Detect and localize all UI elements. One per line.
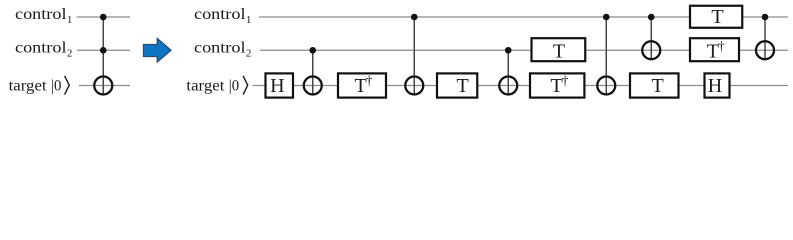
gate T-dagger box 2 on target wire [530, 73, 584, 98]
svg-text:2: 2 [246, 47, 252, 59]
label control1 (right circuit) [194, 6, 251, 26]
CNOT 5 target circle on control2 [642, 41, 660, 59]
wire control2 (left) [77, 49, 130, 51]
blue block arrow [144, 39, 172, 63]
wire control1 (left) [77, 16, 131, 18]
wire control2 (right) [260, 49, 788, 51]
Toffoli vertical connector (left) [102, 17, 104, 95]
svg-text:H: H [708, 75, 722, 97]
CNOT target circle (left) [94, 77, 112, 95]
CNOT 3 target circle [499, 77, 517, 95]
control dot wire2 (left) [100, 47, 107, 54]
CNOT 4 control dot on control1 [603, 14, 610, 21]
gate H box 2 on target wire [705, 73, 730, 97]
CNOT 3 vertical (control2 -> target) [507, 50, 509, 95]
label control2 (right circuit) [194, 40, 251, 60]
svg-text:|0: |0 [229, 77, 239, 94]
gate H box 1 on target wire [266, 73, 294, 97]
gate T box on control1 wire [690, 6, 742, 28]
CNOT 1 control dot on control2 [309, 47, 316, 54]
svg-text:control: control [15, 6, 67, 23]
CNOT 3 control dot on control2 [505, 47, 512, 54]
CNOT 6 vertical (control1 -> control2) [764, 17, 766, 60]
gate T-dagger box 1 on target wire [338, 73, 386, 98]
CNOT 2 control dot on control1 [411, 14, 418, 21]
svg-text:control: control [194, 6, 246, 23]
svg-text:control: control [15, 40, 67, 57]
svg-text:T: T [711, 6, 723, 28]
CNOT 5 vertical (control1 -> control2) [650, 17, 652, 60]
svg-text:|0: |0 [51, 77, 61, 94]
svg-text:H: H [270, 75, 284, 97]
gate T box on control2 wire [532, 38, 586, 62]
svg-text:1: 1 [67, 14, 73, 26]
gate T box 2 on target wire [630, 73, 679, 97]
CNOT 2 vertical (control1 -> target) [413, 17, 415, 95]
label control1 (left circuit) [15, 6, 72, 26]
CNOT 6 control dot on control1 [762, 14, 769, 21]
CNOT 1 vertical (control2 -> target) [312, 50, 314, 95]
svg-text:1: 1 [246, 14, 252, 26]
wire control1 (right) [259, 16, 788, 18]
label target |0> (left circuit) [9, 76, 70, 95]
svg-text:control: control [194, 40, 246, 57]
svg-text:2: 2 [67, 47, 73, 59]
wire target (right) [253, 85, 789, 87]
gate T-dagger box on control2 wire [690, 38, 739, 62]
control dot wire1 (left) [100, 14, 107, 21]
wire target (left) [79, 85, 130, 87]
CNOT 1 target circle [304, 77, 322, 95]
label control2 (left circuit) [15, 40, 72, 60]
label target |0> (right circuit) [186, 76, 247, 95]
svg-text:T: T [651, 75, 663, 97]
svg-text:T: T [456, 75, 468, 97]
CNOT 2 target circle [405, 77, 423, 95]
CNOT 6 target circle on control2 [756, 41, 774, 59]
gate T box 1 on target wire [437, 73, 477, 97]
CNOT 5 control dot on control1 [648, 14, 655, 21]
svg-text:target: target [9, 77, 48, 94]
svg-text:target: target [186, 77, 225, 94]
CNOT 4 vertical (control1 -> target) [605, 17, 607, 95]
svg-text:T: T [553, 40, 565, 62]
CNOT 4 target circle [597, 77, 615, 95]
